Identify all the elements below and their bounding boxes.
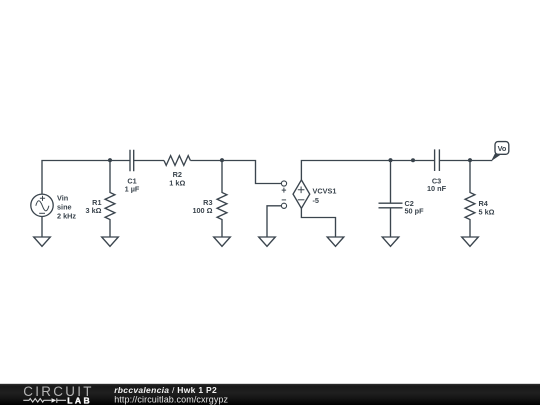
node C (C2 junction) [388, 158, 392, 162]
svg-text:50 pF: 50 pF [405, 207, 425, 216]
wire Vin top [42, 161, 110, 195]
ground (R3) [214, 237, 231, 246]
ground (C2) [382, 237, 399, 246]
node Vo flag [491, 142, 509, 162]
svg-text:1 µF: 1 µF [125, 184, 140, 193]
wire minus terminal to ground [267, 206, 281, 237]
svg-text:2 kHz: 2 kHz [57, 212, 76, 221]
resistor R1 [86, 161, 115, 238]
wire node to C1 [110, 160, 130, 162]
ground (R4) [462, 237, 479, 246]
wire R2 to node B [190, 160, 222, 162]
ground (VCVS) [327, 237, 344, 246]
voltage source Vin [31, 194, 77, 221]
svg-text:100 Ω: 100 Ω [192, 206, 212, 215]
svg-text:LAB: LAB [67, 396, 92, 405]
ground (minus terminal) [259, 237, 276, 246]
svg-text:VCVS1: VCVS1 [313, 187, 337, 196]
svg-text:-5: -5 [313, 196, 320, 205]
node D (R4 junction) [468, 158, 472, 162]
capacitor C3 [427, 149, 447, 193]
svg-text:rbccvalencia / Hwk 1 P2: rbccvalencia / Hwk 1 P2 [114, 385, 217, 395]
dependent source VCVS1 [293, 180, 336, 208]
svg-text:R4: R4 [479, 199, 489, 208]
logo resistor + diode glyph [23, 398, 66, 403]
footer bar [0, 383, 540, 405]
resistor R3 [192, 161, 226, 238]
ground (Vin) [34, 237, 51, 246]
svg-text:http://circuitlab.com/cxrgypz: http://circuitlab.com/cxrgypz [114, 394, 228, 404]
wire C1 to R2 [134, 160, 164, 162]
svg-text:5 kΩ: 5 kΩ [479, 208, 495, 217]
wire node B to plus terminal [222, 161, 281, 184]
node B (R3 junction) [220, 158, 224, 162]
svg-text:Vin: Vin [57, 194, 68, 203]
terminal minus [281, 200, 286, 209]
wire VCVS top to C3 [301, 161, 434, 180]
wire VCVS bottom to ground [301, 208, 335, 237]
wire Vin bottom [41, 217, 43, 238]
wire C3 to Vo [439, 160, 492, 162]
svg-text:1 kΩ: 1 kΩ [169, 178, 185, 187]
svg-text:Vo: Vo [498, 144, 507, 153]
capacitor C2 [379, 161, 425, 238]
ground (R1) [102, 237, 119, 246]
svg-text:sine: sine [57, 203, 72, 212]
terminal plus [281, 181, 286, 193]
svg-text:10 nF: 10 nF [427, 184, 447, 193]
resistor R4 [465, 161, 495, 238]
capacitor C1 [125, 150, 140, 194]
resistor R2 [164, 156, 190, 188]
node A (R1 junction) [108, 158, 112, 162]
wire junction dot [411, 158, 415, 162]
svg-text:3 kΩ: 3 kΩ [86, 206, 102, 215]
